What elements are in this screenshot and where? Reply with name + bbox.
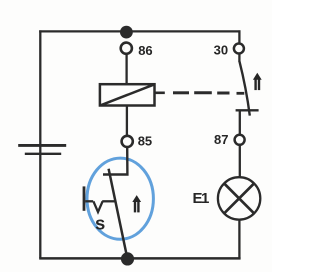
battery G1 long plate — [18, 144, 66, 147]
switch S actuator plate — [83, 186, 86, 210]
relay fixed contact bar — [236, 109, 259, 111]
arrow up (relay contact actuation) — [253, 73, 262, 90]
battery G1 short plate — [25, 153, 61, 155]
switch S linkage V notch — [93, 201, 102, 212]
dashed mechanical link dash 1 — [173, 91, 189, 94]
svg-text:s: s — [95, 213, 105, 234]
relay coil K1 box — [100, 84, 155, 105]
terminal 30 — [234, 44, 244, 54]
svg-text:30: 30 — [214, 42, 228, 57]
terminal 87 — [235, 135, 245, 145]
arrow up (switch S actuation) — [132, 195, 141, 212]
wire left vertical (battery branch) — [39, 30, 41, 258]
wire terminal86 to relay coil — [125, 53, 127, 84]
wire terminal 30 to relay contact — [238, 53, 240, 62]
wire terminal 87 to lamp — [239, 145, 241, 178]
relay contact blade — [240, 62, 250, 116]
dashed mechanical link dash 2 — [194, 91, 212, 94]
dashed mechanical link dash 3 — [217, 92, 229, 95]
highlight ellipse around switch S — [87, 158, 153, 239]
switch S linkage left — [85, 200, 93, 202]
relay coil diagonal — [101, 85, 154, 106]
lamp E1 circle — [218, 177, 260, 219]
node junction top (dot) — [120, 26, 133, 39]
lamp E1 cross stroke 2 — [224, 184, 254, 214]
switch S blade — [109, 169, 128, 259]
wire lamp to bottom bus — [238, 220, 240, 259]
wire terminal 85 to switch pivot (L-shape) — [103, 147, 127, 175]
lamp E1 cross stroke 1 — [224, 184, 254, 214]
dashed mechanical link dash 4 — [237, 92, 245, 95]
dashed mechanical link: coil stub — [154, 92, 165, 95]
wire top bus — [39, 30, 240, 32]
terminal 85 — [122, 136, 133, 147]
wire bottom bus — [39, 257, 240, 260]
switch S linkage right — [102, 200, 114, 202]
wire relay coil to terminal 85 — [126, 106, 128, 137]
svg-text:87: 87 — [214, 132, 228, 147]
svg-text:85: 85 — [138, 133, 152, 148]
svg-text:E1: E1 — [193, 190, 210, 207]
terminal 86 — [121, 43, 132, 54]
node junction bottom (dot) — [121, 252, 134, 265]
svg-text:86: 86 — [138, 43, 152, 58]
wire right vertical top — [238, 30, 240, 43]
wire contact bar to terminal 87 — [239, 110, 241, 135]
